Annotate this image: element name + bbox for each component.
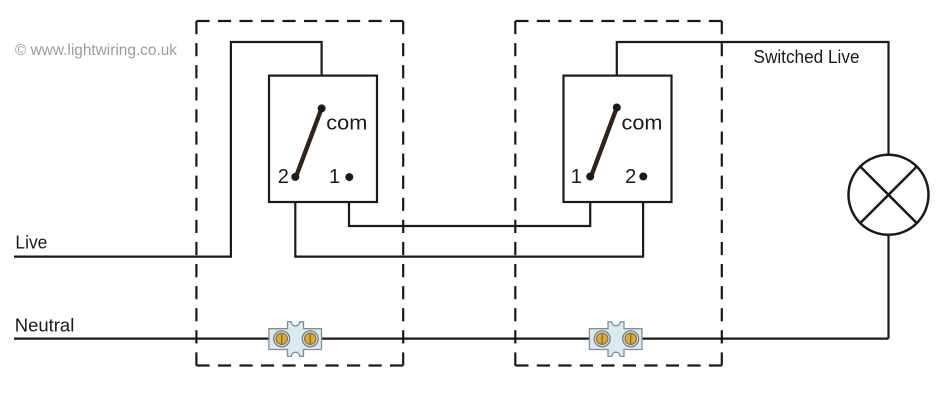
svg-text:Live: Live (15, 232, 47, 253)
terminal block TB2 (neutral connector, right) (589, 322, 642, 357)
wire: strapper terminal2-terminal2 (295, 177, 643, 257)
svg-text:com: com (622, 112, 663, 134)
switch SW2 terminal 2 (639, 173, 647, 181)
svg-text:2: 2 (625, 166, 636, 188)
svg-text:1: 1 (571, 166, 582, 188)
wire: Switched Live (617, 42, 889, 155)
svg-text:Neutral: Neutral (15, 315, 75, 335)
wire: strapper terminal1-terminal1 (349, 177, 590, 226)
svg-text:Switched Live: Switched Live (754, 47, 860, 67)
switch enclosure 2 (dashed box, right) (515, 21, 722, 366)
switch enclosure 1 (dashed box, left) (196, 21, 403, 366)
switch SW1 terminal 2 (291, 173, 299, 181)
switch SW1 lever (297, 108, 322, 174)
svg-text:com: com (326, 112, 367, 134)
svg-text:1: 1 (329, 166, 340, 188)
terminal block TB1 (neutral connector, left) (269, 322, 322, 357)
switch SW2 com terminal (613, 104, 621, 112)
wire: Live feed (14, 42, 322, 257)
switch SW1 body (269, 76, 377, 202)
svg-text:2: 2 (278, 166, 289, 188)
svg-text:© www.lightwiring.co.uk: © www.lightwiring.co.uk (15, 42, 177, 59)
switch SW1 terminal 1 (345, 173, 353, 181)
wire: lamp to neutral (887, 235, 889, 339)
lamp symbol (849, 155, 929, 235)
switch SW1 com terminal (318, 104, 326, 112)
switch SW2 body (564, 76, 672, 202)
wire: Neutral (14, 338, 889, 340)
switch SW2 terminal 1 (586, 173, 594, 181)
switch SW2 lever (592, 108, 617, 175)
